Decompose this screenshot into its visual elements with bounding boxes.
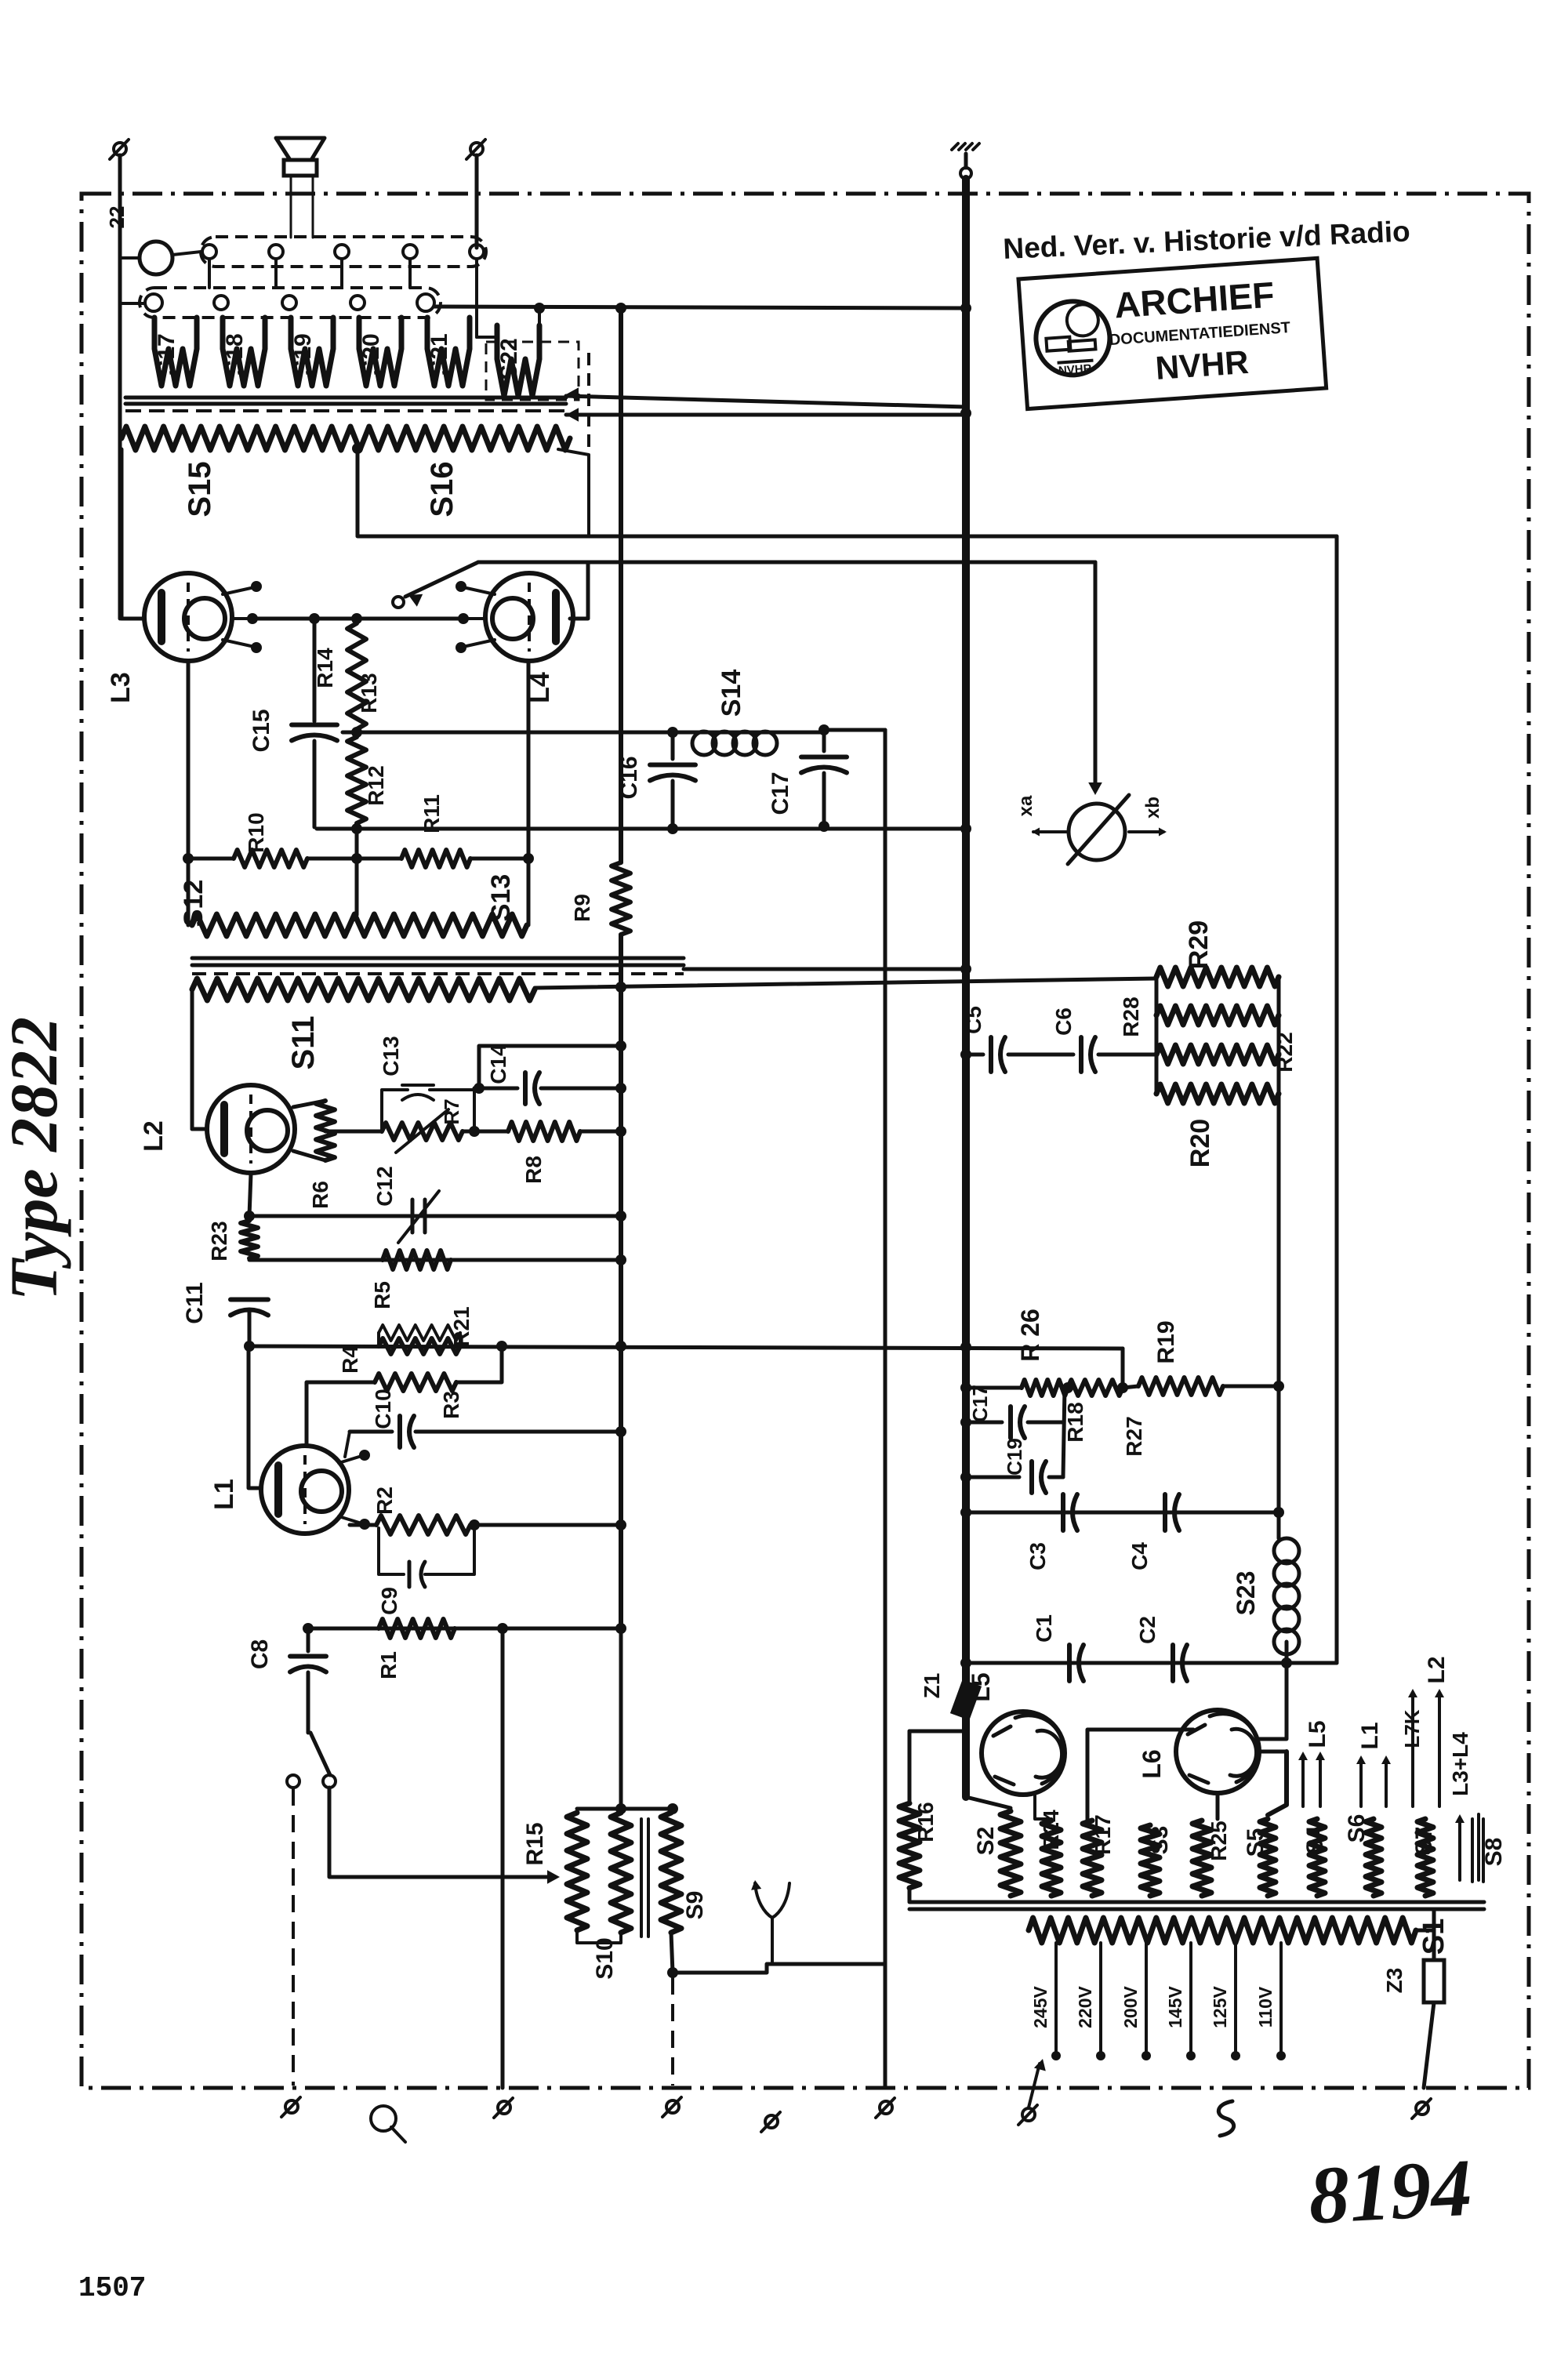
wire tap a to bus xyxy=(566,396,966,407)
switch gramophone xyxy=(310,1733,330,1775)
rail anode left vertical upper xyxy=(619,308,623,862)
svg-text:L5: L5 xyxy=(967,1672,995,1701)
output transformer core xyxy=(125,396,566,400)
svg-text:R14: R14 xyxy=(313,648,337,688)
resistor block R29 xyxy=(1156,967,1279,986)
svg-text:R7: R7 xyxy=(440,1098,463,1124)
wire node M down xyxy=(1063,1388,1065,1477)
rail mid vertical xyxy=(884,730,887,1964)
svg-text:S9: S9 xyxy=(682,1891,708,1920)
svg-text:S8: S8 xyxy=(1481,1838,1507,1867)
winding S8 xyxy=(1472,1819,1483,1882)
resistor R6 xyxy=(293,1101,325,1107)
wire terminal g1 down xyxy=(118,155,122,619)
svg-text:S14: S14 xyxy=(717,670,746,717)
tap 220V xyxy=(1099,1943,1102,2053)
terminal aux xyxy=(765,2115,778,2128)
svg-text:C1: C1 xyxy=(1032,1614,1056,1643)
svg-text:S15: S15 xyxy=(183,461,217,517)
wire L4 plate to line xyxy=(570,562,588,619)
wire L4 cathode down to S13 xyxy=(527,661,531,925)
svg-text:110V: 110V xyxy=(1255,1986,1276,2028)
svg-text:S16: S16 xyxy=(425,461,459,517)
svg-text:145V: 145V xyxy=(1165,1985,1185,2028)
terminal pickup left xyxy=(285,2100,298,2113)
wire switch to volume pot xyxy=(329,1788,554,1877)
resistor R21 xyxy=(379,1338,460,1354)
wire grid row with C12 xyxy=(249,1214,621,1218)
svg-text:R13: R13 xyxy=(357,673,381,713)
terminal mains right xyxy=(1416,2102,1428,2115)
svg-text:R15: R15 xyxy=(522,1822,548,1865)
wire L5 couple box xyxy=(1035,1795,1051,1819)
wire to pickup terminal dashed xyxy=(292,1788,295,2086)
winding S7 xyxy=(1417,1819,1433,1896)
svg-text:C12: C12 xyxy=(372,1166,397,1206)
resistor R20 xyxy=(1156,1084,1279,1103)
winding S17 xyxy=(154,318,197,386)
pin dots L3 xyxy=(223,588,251,594)
potentiometer R15 xyxy=(567,1813,587,1930)
svg-text:R8: R8 xyxy=(521,1156,546,1184)
terminal bar upper xyxy=(201,237,486,267)
svg-text:Z3: Z3 xyxy=(1382,1968,1406,1994)
svg-text:22: 22 xyxy=(105,206,129,229)
tube L5 xyxy=(982,1712,1065,1795)
svg-text:R1: R1 xyxy=(376,1651,401,1679)
svg-text:S3: S3 xyxy=(1147,1826,1173,1855)
wire B+ right drop xyxy=(1335,536,1339,1663)
svg-text:R19: R19 xyxy=(1153,1320,1179,1363)
wire L6 grid to R17 xyxy=(1087,1730,1193,1821)
pin dots L1 xyxy=(339,1457,359,1463)
winding S19 xyxy=(291,318,333,386)
ground bus vertical xyxy=(962,179,970,1683)
speaker xyxy=(276,138,325,160)
svg-text:R3: R3 xyxy=(439,1391,463,1419)
svg-text:R 26: R 26 xyxy=(1016,1309,1044,1362)
svg-text:L7K: L7K xyxy=(1400,1709,1424,1748)
resistor R28 xyxy=(1156,1006,1279,1025)
resistor R23 xyxy=(241,1221,258,1258)
grid cap node xyxy=(393,597,404,608)
svg-text:R23: R23 xyxy=(207,1221,231,1261)
wire L1 grid xyxy=(249,1346,260,1488)
svg-text:R11: R11 xyxy=(419,794,444,833)
svg-text:S23: S23 xyxy=(1232,1571,1260,1616)
wire bus to R16 xyxy=(909,1730,966,1734)
wire S12 center tap xyxy=(355,859,359,915)
wire grid cap diagonal to AVC line xyxy=(405,562,478,597)
wire S16 right end down xyxy=(558,449,589,536)
svg-text:R20: R20 xyxy=(1185,1119,1215,1167)
svg-text:S11: S11 xyxy=(286,1016,321,1070)
svg-text:L1: L1 xyxy=(1357,1722,1383,1749)
resistor R3 xyxy=(307,1382,375,1445)
svg-text:S21: S21 xyxy=(426,333,452,375)
heater arrows L1 xyxy=(1359,1760,1363,1806)
dashed box around S22 xyxy=(486,342,579,400)
wire oscillator row C1 C2 xyxy=(966,1661,1337,1665)
svg-text:S7: S7 xyxy=(1411,1827,1437,1856)
capacitor C17 xyxy=(822,730,826,751)
wire S22 leads xyxy=(477,336,497,339)
label Q gramophone xyxy=(371,2106,396,2131)
resistor R18 xyxy=(1068,1380,1123,1396)
svg-text:C5: C5 xyxy=(961,1006,985,1034)
svg-text:L2: L2 xyxy=(1424,1656,1450,1683)
svg-text:S5: S5 xyxy=(1243,1828,1269,1857)
wire S11 to R-block xyxy=(535,978,1156,988)
terminal g1 top left xyxy=(114,143,126,155)
wire bus to R26 row xyxy=(966,1386,1022,1390)
tap 245V xyxy=(1054,1943,1058,2053)
tap 200V xyxy=(1145,1943,1148,2053)
svg-text:1507: 1507 xyxy=(78,2272,146,2304)
svg-text:S4: S4 xyxy=(1302,1825,1328,1854)
winding S11 IF primary xyxy=(192,978,535,1000)
tube L3 xyxy=(144,573,232,661)
svg-text:C17: C17 xyxy=(768,771,793,815)
svg-text:R18: R18 xyxy=(1063,1402,1087,1442)
wire bias row long xyxy=(249,1346,1123,1349)
svg-text:R27: R27 xyxy=(1122,1416,1146,1456)
svg-text:R28: R28 xyxy=(1119,997,1143,1036)
winding S1 mains primary xyxy=(1029,1918,1416,1943)
wire L2 anode down xyxy=(249,1174,251,1216)
terminal rail xyxy=(880,2101,892,2114)
svg-text:xb: xb xyxy=(1142,797,1163,819)
svg-text:C17: C17 xyxy=(968,1385,992,1422)
wire S14 right loop xyxy=(824,728,885,732)
svg-text:R6: R6 xyxy=(308,1181,332,1209)
wire meter drop xyxy=(1094,562,1098,790)
svg-text:125V: 125V xyxy=(1210,1985,1230,2028)
svg-text:R21: R21 xyxy=(449,1306,474,1346)
terminal bar lower xyxy=(140,288,441,318)
capacitor C9 xyxy=(379,1528,404,1574)
winding S10 xyxy=(611,1813,631,1933)
resistor R12 xyxy=(347,737,366,823)
svg-text:L3+L4: L3+L4 xyxy=(1448,1732,1472,1796)
NVHR archive stamp xyxy=(1018,258,1327,408)
svg-text:Type 2822: Type 2822 xyxy=(0,1017,71,1301)
svg-text:C19: C19 xyxy=(1003,1438,1026,1476)
wire screen feed elbow xyxy=(479,1046,621,1088)
wire node to terminal dashed xyxy=(671,1977,674,2086)
fuse Z3 xyxy=(1416,1929,1434,1933)
rail anode left vertical lower xyxy=(619,935,623,1628)
svg-text:R24: R24 xyxy=(1039,1810,1063,1850)
wire S14 row xyxy=(673,731,690,735)
svg-text:R5: R5 xyxy=(370,1281,394,1309)
winding S15 S16 primary xyxy=(122,427,570,450)
voltage selector xyxy=(1022,2108,1035,2121)
wire tap b to bus xyxy=(566,413,966,417)
mains transformer core xyxy=(909,1900,1484,1904)
capacitor C19 xyxy=(966,1476,1019,1479)
wire rail to terminal xyxy=(884,1964,887,2088)
svg-text:S17: S17 xyxy=(154,333,180,375)
wire L6 plate to S5 xyxy=(1258,1663,1287,1739)
resistor R10 xyxy=(188,857,234,861)
fuse Z1 xyxy=(950,1679,982,1720)
capacitor C3 xyxy=(1061,1494,1065,1530)
svg-text:C10: C10 xyxy=(371,1389,395,1429)
svg-text:C6: C6 xyxy=(1051,1007,1076,1036)
wire screen row xyxy=(343,731,824,735)
terminal R1 xyxy=(498,2101,510,2114)
capacitor C14 xyxy=(474,1087,517,1091)
IF transformer core xyxy=(192,957,684,960)
stems from upper bar xyxy=(208,259,211,288)
resistor R13 xyxy=(347,623,366,729)
tube L4 xyxy=(485,573,573,661)
wire R block down xyxy=(1277,1094,1281,1538)
svg-text:R17: R17 xyxy=(1091,1814,1115,1854)
svg-text:R12: R12 xyxy=(364,765,388,805)
tap 110V xyxy=(1279,1943,1283,2053)
capacitor C4 xyxy=(1163,1494,1167,1530)
svg-text:S18: S18 xyxy=(222,333,248,375)
svg-text:8194: 8194 xyxy=(1306,2143,1474,2242)
svg-text:L2: L2 xyxy=(139,1120,169,1152)
winding S22 xyxy=(497,325,539,396)
wire L6 cathode xyxy=(1216,1793,1220,1819)
svg-text:S12: S12 xyxy=(179,880,209,928)
svg-text:C3: C3 xyxy=(1025,1542,1050,1570)
arrow tap b xyxy=(566,408,579,422)
resistor R1 xyxy=(379,1619,455,1638)
dial lamp 22 xyxy=(140,241,172,274)
winding S6 xyxy=(1366,1819,1381,1896)
svg-text:R10: R10 xyxy=(244,812,268,852)
wire S9 bottom node xyxy=(671,1933,673,1973)
svg-text:S19: S19 xyxy=(290,333,316,375)
bus lower section xyxy=(962,1714,970,1797)
svg-text:R9: R9 xyxy=(570,894,594,922)
rail anode supply down xyxy=(619,1628,623,1809)
pin dots L4 xyxy=(466,588,495,594)
resistor R4 xyxy=(377,1333,380,1346)
resistor R25 xyxy=(1192,1821,1211,1896)
svg-text:S6: S6 xyxy=(1344,1814,1370,1843)
svg-text:NVHR: NVHR xyxy=(1154,343,1250,387)
winding S5 xyxy=(1260,1819,1276,1896)
capacitor C12 trimmer xyxy=(411,1200,415,1233)
tube L1 xyxy=(261,1446,349,1534)
winding S21 xyxy=(427,318,470,386)
tap 145V xyxy=(1189,1943,1192,2053)
tap 125V xyxy=(1234,1943,1237,2053)
svg-text:C11: C11 xyxy=(182,1282,208,1323)
svg-text:245V: 245V xyxy=(1030,1985,1051,2028)
resistor R2 xyxy=(350,1523,376,1527)
capacitor C8 xyxy=(307,1628,310,1651)
wire pot top row xyxy=(577,1807,673,1811)
svg-text:200V: 200V xyxy=(1120,1985,1141,2028)
wire R1 node down to terminal xyxy=(501,1628,505,2088)
svg-text:Z1: Z1 xyxy=(920,1673,944,1699)
svg-text:R22: R22 xyxy=(1272,1032,1297,1072)
svg-text:L5: L5 xyxy=(1305,1720,1330,1748)
winding S20 xyxy=(359,318,401,386)
svg-text:R25: R25 xyxy=(1207,1821,1231,1861)
resistor R17 xyxy=(1083,1821,1102,1896)
wire detector row C3 C4 xyxy=(966,1511,1279,1515)
wire L3 anode down to S12 xyxy=(187,661,191,925)
AC symbol xyxy=(1218,2101,1233,2136)
winding S12 S13 IF secondary xyxy=(192,914,527,936)
capacitor C11 xyxy=(230,1298,268,1302)
wire AVC line to meter xyxy=(478,561,1095,565)
winding S2 xyxy=(1000,1811,1021,1896)
capacitor C10 xyxy=(350,1430,392,1434)
heater arrows L5 xyxy=(1301,1756,1305,1806)
svg-text:C14: C14 xyxy=(486,1044,510,1084)
winding S4 xyxy=(1309,1819,1325,1896)
wire S11 left down to L2 grid xyxy=(191,989,194,1129)
resistor R5 xyxy=(383,1251,451,1269)
wire bus to S2 xyxy=(966,1797,1011,1808)
wire node to rail xyxy=(673,1964,885,1973)
svg-text:220V: 220V xyxy=(1075,1985,1095,2028)
wire plate node down to S5 xyxy=(1268,1752,1287,1815)
wire terminal g2 down xyxy=(475,155,479,248)
svg-text:L1: L1 xyxy=(209,1479,239,1510)
resistor R8 xyxy=(508,1122,580,1141)
wire R15 S10 bottoms xyxy=(577,1930,621,1943)
svg-text:C9: C9 xyxy=(377,1587,401,1615)
wire S15 left down to tube L3 grid xyxy=(120,449,124,619)
svg-text:L6: L6 xyxy=(1138,1749,1166,1778)
wire speaker leads xyxy=(290,176,292,238)
meter terminal xb xyxy=(1129,830,1163,833)
capacitor C6 xyxy=(1079,1037,1083,1072)
ground symbol top xyxy=(964,154,968,168)
autotransformer core xyxy=(640,1819,643,1937)
svg-text:S2: S2 xyxy=(973,1827,999,1856)
R block side bars xyxy=(1155,977,1159,1094)
resistor R11 xyxy=(401,850,470,867)
capacitor C16 xyxy=(671,732,675,759)
svg-text:R29: R29 xyxy=(1184,920,1214,969)
resistor R22 xyxy=(1156,1045,1279,1064)
svg-text:R2: R2 xyxy=(372,1487,397,1515)
border frame (dash-dot chassis outline) xyxy=(82,194,1529,2088)
capacitor C15 xyxy=(313,623,317,721)
terminal g2 top xyxy=(470,143,483,155)
capacitor C17b xyxy=(966,1421,1002,1425)
svg-text:R4: R4 xyxy=(338,1345,362,1374)
capacitor C1 xyxy=(1067,1645,1072,1681)
wire box corner down xyxy=(1121,1349,1125,1388)
svg-text:S20: S20 xyxy=(358,333,384,375)
wire terminal strip to ground bus xyxy=(434,307,966,308)
svg-text:NVHR: NVHR xyxy=(1058,362,1092,378)
capacitor C2 xyxy=(1171,1645,1175,1681)
svg-text:S22: S22 xyxy=(496,338,522,379)
resistor R26 xyxy=(1022,1380,1068,1396)
heater arrows L2 xyxy=(1411,1694,1414,1806)
svg-text:C8: C8 xyxy=(247,1639,273,1669)
svg-text:xa: xa xyxy=(1015,795,1036,816)
resistor R16 xyxy=(899,1803,920,1888)
svg-text:C13: C13 xyxy=(379,1036,403,1076)
winding S9 xyxy=(661,1813,681,1933)
resistor R24 xyxy=(1042,1821,1061,1896)
resistor R7 variable xyxy=(382,1123,463,1140)
svg-text:S13: S13 xyxy=(486,874,516,922)
wire cathode ground row R1 xyxy=(308,1627,621,1631)
tube L2 xyxy=(207,1085,295,1173)
wire cathode row xyxy=(317,827,966,831)
resistor R27 R19 xyxy=(1138,1378,1223,1395)
svg-text:C2: C2 xyxy=(1135,1616,1160,1644)
svg-text:C15: C15 xyxy=(249,709,274,752)
terminal S9 xyxy=(666,2100,679,2113)
svg-text:L3: L3 xyxy=(106,672,136,703)
wire core to bus xyxy=(684,967,966,971)
coil S23 xyxy=(1274,1538,1299,1654)
wire node to R8 xyxy=(474,1130,508,1134)
svg-text:C16: C16 xyxy=(616,756,642,799)
svg-text:R16: R16 xyxy=(913,1802,938,1842)
wire R6 to R7 xyxy=(325,1130,382,1134)
pickup fork symbol xyxy=(755,1883,789,1964)
meter terminal xa xyxy=(1033,830,1066,833)
coil S14 xyxy=(692,732,777,755)
heater arrows L3+L4 xyxy=(1458,1819,1461,1880)
winding S18 xyxy=(223,318,265,386)
capacitor C13 xyxy=(382,1090,408,1131)
wire anode row xyxy=(249,617,459,621)
wire AVC row with R5 xyxy=(249,1258,621,1262)
meter X xyxy=(1069,804,1125,860)
capacitor C5 xyxy=(966,1053,983,1057)
resistor R9 xyxy=(612,862,630,935)
wire center tap B+ line xyxy=(358,448,1337,536)
tube L6 xyxy=(1176,1710,1259,1793)
svg-text:C4: C4 xyxy=(1127,1542,1152,1570)
winding S3 xyxy=(1141,1825,1160,1896)
arrow tap a xyxy=(566,387,579,401)
